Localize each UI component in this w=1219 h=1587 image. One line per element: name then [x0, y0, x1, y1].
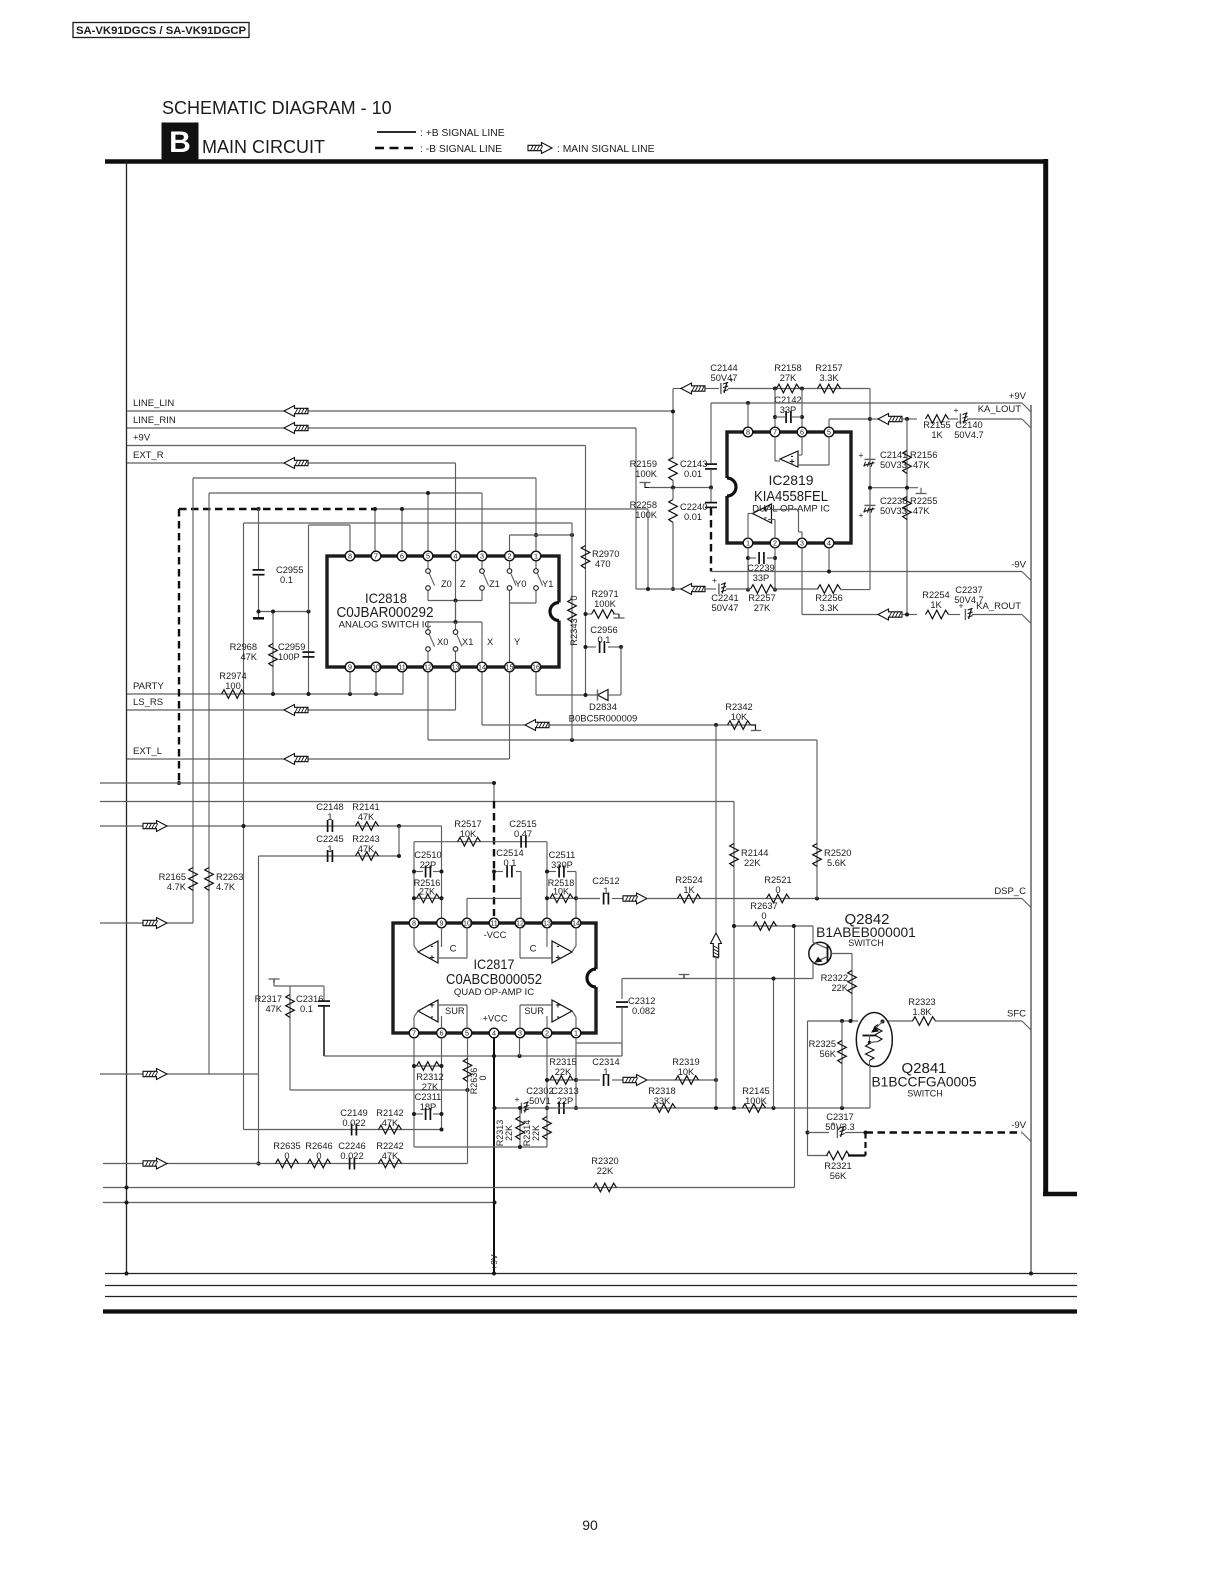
- svg-text:0.022: 0.022: [342, 1118, 365, 1128]
- svg-text:EXT_R: EXT_R: [133, 450, 164, 461]
- svg-text:R2974: R2974: [219, 671, 246, 681]
- svg-text:C2245: C2245: [316, 834, 343, 844]
- svg-text:C0ABCB000052: C0ABCB000052: [446, 972, 542, 988]
- svg-text:47K: 47K: [358, 812, 375, 822]
- svg-text:16: 16: [532, 663, 540, 672]
- svg-text:Y0: Y0: [515, 579, 526, 589]
- svg-text:D2834: D2834: [589, 702, 617, 713]
- svg-text:3: 3: [518, 1029, 522, 1038]
- svg-text:-: -: [764, 512, 767, 522]
- svg-text:SUR: SUR: [445, 1006, 465, 1016]
- svg-text:R2646: R2646: [305, 1141, 332, 1151]
- svg-text:C2238: C2238: [880, 496, 907, 506]
- svg-text:7: 7: [374, 552, 378, 561]
- svg-text:R2517: R2517: [454, 819, 481, 829]
- svg-text:EXT_L: EXT_L: [133, 746, 162, 757]
- svg-text:-: -: [557, 941, 560, 951]
- svg-text:C2515: C2515: [509, 819, 536, 829]
- svg-text:R2342: R2342: [725, 702, 752, 712]
- svg-text:47K: 47K: [265, 1004, 282, 1014]
- svg-text:R2322: R2322: [821, 973, 848, 983]
- svg-text:C2956: C2956: [590, 625, 617, 635]
- svg-text:50V47: 50V47: [711, 373, 738, 383]
- svg-text:1: 1: [746, 539, 750, 548]
- svg-text:33K: 33K: [654, 1096, 671, 1106]
- svg-text:8: 8: [412, 919, 416, 928]
- svg-text:+9V: +9V: [489, 1254, 499, 1270]
- svg-text:SWITCH: SWITCH: [907, 1089, 943, 1099]
- svg-text:+9V: +9V: [133, 433, 151, 444]
- svg-text:22K: 22K: [555, 1067, 572, 1077]
- svg-text:90: 90: [582, 1517, 598, 1533]
- svg-text:0.1: 0.1: [300, 1004, 313, 1014]
- svg-text:47K: 47K: [382, 1118, 399, 1128]
- svg-text:13: 13: [543, 919, 551, 928]
- svg-text:2: 2: [773, 539, 777, 548]
- svg-text:6: 6: [800, 428, 804, 437]
- svg-text:C2314: C2314: [592, 1057, 619, 1067]
- svg-text:KIA4558FEL: KIA4558FEL: [754, 488, 828, 505]
- svg-text:R2242: R2242: [376, 1141, 403, 1151]
- svg-text:27K: 27K: [419, 887, 435, 897]
- svg-text:R2258: R2258: [630, 500, 657, 510]
- svg-text:R2635: R2635: [273, 1141, 300, 1151]
- svg-text:100K: 100K: [635, 469, 658, 479]
- svg-text:11: 11: [398, 663, 405, 672]
- svg-text:R2158: R2158: [774, 363, 801, 373]
- svg-text:22P: 22P: [420, 860, 437, 870]
- svg-text:R2521: R2521: [764, 875, 791, 885]
- svg-text:C2511: C2511: [549, 850, 576, 860]
- svg-text:0: 0: [761, 911, 766, 921]
- svg-text:+: +: [712, 575, 717, 585]
- svg-text:4: 4: [454, 552, 458, 561]
- svg-text:10: 10: [463, 919, 471, 928]
- svg-text:C2241: C2241: [711, 593, 738, 603]
- svg-text:100K: 100K: [745, 1096, 768, 1106]
- svg-text:+VCC: +VCC: [482, 1014, 507, 1024]
- svg-text:LINE_LIN: LINE_LIN: [133, 398, 174, 409]
- svg-text:SCHEMATIC DIAGRAM - 10: SCHEMATIC DIAGRAM - 10: [162, 98, 392, 118]
- svg-text:C2955: C2955: [276, 565, 303, 575]
- svg-text:0.47: 0.47: [514, 829, 532, 839]
- svg-text:R2159: R2159: [630, 459, 657, 469]
- svg-text:Y: Y: [514, 637, 520, 647]
- svg-text:: -B SIGNAL LINE: : -B SIGNAL LINE: [420, 144, 502, 155]
- svg-text:IC2817: IC2817: [474, 956, 515, 972]
- svg-text:7: 7: [412, 1029, 416, 1038]
- svg-text:5: 5: [827, 428, 831, 437]
- svg-text:QUAD OP-AMP IC: QUAD OP-AMP IC: [454, 987, 534, 998]
- svg-text:56K: 56K: [819, 1049, 836, 1059]
- svg-text:1: 1: [603, 1067, 608, 1077]
- svg-text:100K: 100K: [594, 599, 617, 609]
- svg-text:+: +: [789, 456, 794, 466]
- svg-text:+: +: [429, 1000, 434, 1010]
- svg-text:0.1: 0.1: [598, 635, 611, 645]
- svg-text:22K: 22K: [744, 858, 761, 868]
- svg-text:R2325: R2325: [809, 1039, 836, 1049]
- svg-text:: MAIN SIGNAL LINE: : MAIN SIGNAL LINE: [557, 144, 655, 155]
- svg-text:C2246: C2246: [338, 1141, 365, 1151]
- svg-text:B: B: [169, 126, 191, 159]
- svg-text:R2317: R2317: [255, 994, 282, 1004]
- svg-text:12: 12: [516, 919, 524, 928]
- svg-text:14: 14: [478, 663, 486, 672]
- svg-text:18P: 18P: [420, 1102, 437, 1112]
- svg-text:4.7K: 4.7K: [216, 882, 236, 892]
- svg-text:12: 12: [424, 663, 432, 672]
- svg-text:C2144: C2144: [710, 363, 737, 373]
- svg-text:22K: 22K: [597, 1166, 614, 1176]
- svg-text:0.082: 0.082: [632, 1006, 655, 1016]
- svg-text:R2155: R2155: [923, 420, 950, 430]
- svg-text:1K: 1K: [930, 600, 942, 610]
- svg-text:SWITCH: SWITCH: [848, 938, 884, 948]
- svg-text:0: 0: [284, 1151, 289, 1161]
- svg-text:X: X: [487, 637, 493, 647]
- svg-text:R2970: R2970: [592, 549, 619, 559]
- svg-text:5: 5: [426, 552, 430, 561]
- svg-text:C2510: C2510: [414, 850, 441, 860]
- svg-text:22K: 22K: [504, 1125, 514, 1141]
- svg-text:+: +: [954, 405, 959, 415]
- svg-text:B1BCCFGA0005: B1BCCFGA0005: [871, 1075, 976, 1090]
- svg-text:6: 6: [400, 552, 404, 561]
- svg-text:50V1: 50V1: [529, 1096, 551, 1106]
- svg-text:R2319: R2319: [672, 1057, 699, 1067]
- svg-text:33P: 33P: [753, 573, 770, 583]
- svg-text:3: 3: [480, 552, 484, 561]
- svg-text:C2148: C2148: [316, 802, 343, 812]
- svg-text:3.3K: 3.3K: [819, 603, 839, 613]
- svg-text:R2320: R2320: [591, 1156, 618, 1166]
- svg-text:C2313: C2313: [551, 1086, 578, 1096]
- svg-text:X0: X0: [437, 637, 448, 647]
- svg-text:100P: 100P: [278, 652, 300, 662]
- svg-text:R2263: R2263: [216, 872, 243, 882]
- svg-text:47K: 47K: [913, 506, 930, 516]
- svg-text:X1: X1: [462, 637, 473, 647]
- svg-text:1: 1: [603, 886, 608, 896]
- svg-text:47K: 47K: [240, 652, 257, 662]
- svg-text:Z: Z: [460, 579, 466, 589]
- svg-text:+: +: [555, 952, 560, 962]
- svg-text:DSP_C: DSP_C: [994, 886, 1026, 897]
- svg-text:50V4.7: 50V4.7: [954, 595, 983, 605]
- svg-text:+9V: +9V: [1009, 391, 1027, 402]
- svg-text:B0BC5R000009: B0BC5R000009: [569, 714, 638, 725]
- svg-text:SFC: SFC: [1007, 1009, 1026, 1020]
- svg-text:R2968: R2968: [230, 642, 257, 652]
- svg-text:7: 7: [773, 428, 777, 437]
- svg-text:1: 1: [327, 812, 332, 822]
- svg-text:R2256: R2256: [815, 593, 842, 603]
- svg-text:R2145: R2145: [742, 1086, 769, 1096]
- svg-text:IC2818: IC2818: [365, 590, 407, 606]
- svg-text:50V47: 50V47: [712, 603, 739, 613]
- svg-text:C2240: C2240: [680, 502, 707, 512]
- svg-text:10K: 10K: [553, 887, 569, 897]
- svg-text:PARTY: PARTY: [133, 681, 164, 692]
- svg-text:8: 8: [746, 428, 750, 437]
- svg-text:R2144: R2144: [741, 848, 768, 858]
- svg-text:0: 0: [316, 1151, 321, 1161]
- svg-text:9: 9: [348, 663, 352, 672]
- svg-text:R2520: R2520: [824, 848, 851, 858]
- svg-text:R2524: R2524: [675, 875, 702, 885]
- svg-text:R2142: R2142: [376, 1108, 403, 1118]
- svg-text:3.3K: 3.3K: [819, 373, 839, 383]
- svg-text:10K: 10K: [460, 829, 477, 839]
- svg-text:ANALOG SWITCH IC: ANALOG SWITCH IC: [339, 620, 432, 631]
- svg-text:C2317: C2317: [826, 1112, 853, 1122]
- svg-text:C2143: C2143: [680, 459, 707, 469]
- svg-text:10K: 10K: [731, 712, 748, 722]
- svg-text:1K: 1K: [683, 885, 695, 895]
- svg-text:330P: 330P: [551, 860, 573, 870]
- svg-text:R2243: R2243: [352, 834, 379, 844]
- svg-text:8: 8: [348, 552, 352, 561]
- svg-text:47K: 47K: [358, 844, 375, 854]
- svg-text:10K: 10K: [678, 1067, 695, 1077]
- svg-text:LS_RS: LS_RS: [133, 697, 163, 708]
- svg-text:0.1: 0.1: [504, 858, 517, 868]
- svg-text:0.1: 0.1: [280, 575, 293, 585]
- svg-text:IC2819: IC2819: [769, 472, 814, 488]
- svg-text:R2156: R2156: [910, 450, 937, 460]
- svg-text:C2512: C2512: [592, 876, 619, 886]
- svg-text:R2315: R2315: [549, 1057, 576, 1067]
- svg-text:KA_LOUT: KA_LOUT: [978, 404, 1021, 415]
- svg-text:6: 6: [440, 1029, 444, 1038]
- svg-text:R2323: R2323: [908, 997, 935, 1007]
- svg-text:15: 15: [506, 663, 514, 672]
- svg-text:5: 5: [465, 1029, 469, 1038]
- svg-text:C2141: C2141: [880, 450, 907, 460]
- svg-text:C2237: C2237: [955, 585, 982, 595]
- svg-text:MAIN CIRCUIT: MAIN CIRCUIT: [202, 137, 325, 157]
- svg-text:5.6K: 5.6K: [827, 858, 847, 868]
- svg-text:R2254: R2254: [922, 590, 949, 600]
- svg-text:2: 2: [508, 552, 512, 561]
- svg-text:R2165: R2165: [159, 872, 186, 882]
- svg-text:C: C: [450, 944, 457, 955]
- svg-text:1: 1: [327, 844, 332, 854]
- svg-text:+: +: [859, 450, 864, 460]
- svg-text:C: C: [530, 944, 537, 955]
- svg-text:C2312: C2312: [628, 996, 655, 1006]
- svg-text:Z1: Z1: [489, 579, 500, 589]
- svg-text:33P: 33P: [780, 405, 797, 415]
- svg-text:100: 100: [225, 681, 241, 691]
- svg-text:3: 3: [800, 539, 804, 548]
- svg-text:R2318: R2318: [648, 1086, 675, 1096]
- svg-text:C2514: C2514: [496, 848, 523, 858]
- svg-text:22P: 22P: [557, 1096, 574, 1106]
- svg-text:C2140: C2140: [955, 420, 982, 430]
- svg-text:0.01: 0.01: [684, 469, 702, 479]
- svg-text:R2312: R2312: [416, 1072, 443, 1082]
- svg-text:-VCC: -VCC: [484, 930, 507, 940]
- svg-text:1K: 1K: [931, 430, 943, 440]
- svg-text:2: 2: [545, 1029, 549, 1038]
- svg-text:R2141: R2141: [352, 802, 379, 812]
- svg-text:56K: 56K: [830, 1171, 847, 1181]
- svg-text:13: 13: [452, 663, 460, 672]
- svg-text:9: 9: [440, 919, 444, 928]
- svg-text:SUR: SUR: [524, 1006, 544, 1016]
- svg-text:R2971: R2971: [591, 589, 618, 599]
- svg-text:+: +: [429, 952, 434, 962]
- svg-text:27K: 27K: [422, 1082, 439, 1092]
- svg-text:22K: 22K: [831, 983, 848, 993]
- svg-text:1: 1: [534, 552, 538, 561]
- svg-text:-9V: -9V: [1011, 1120, 1026, 1131]
- svg-text:470: 470: [595, 559, 611, 569]
- svg-text:R2343: R2343: [569, 618, 579, 645]
- svg-text:47K: 47K: [382, 1151, 399, 1161]
- svg-text:1.8K: 1.8K: [912, 1007, 932, 1017]
- svg-text:C2311: C2311: [415, 1092, 442, 1102]
- svg-text:50V4.7: 50V4.7: [954, 430, 983, 440]
- svg-text:R2157: R2157: [815, 363, 842, 373]
- svg-text:0: 0: [775, 885, 780, 895]
- svg-text:C2959: C2959: [278, 642, 305, 652]
- svg-text:22K: 22K: [531, 1125, 541, 1141]
- svg-text:R2257: R2257: [748, 593, 775, 603]
- svg-text:1: 1: [574, 1029, 578, 1038]
- svg-text:0: 0: [569, 595, 579, 600]
- svg-text:+: +: [859, 510, 864, 520]
- svg-text:47K: 47K: [913, 460, 930, 470]
- svg-text:R2255: R2255: [910, 496, 937, 506]
- svg-text:4: 4: [492, 1029, 496, 1038]
- svg-text:SA-VK91DGCS / SA-VK91DGCP: SA-VK91DGCS / SA-VK91DGCP: [76, 25, 247, 37]
- svg-text:LINE_RIN: LINE_RIN: [133, 415, 176, 426]
- svg-text:0.022: 0.022: [340, 1151, 363, 1161]
- svg-text:50V3.3: 50V3.3: [825, 1122, 854, 1132]
- svg-text:0: 0: [478, 1075, 488, 1080]
- svg-text:-9V: -9V: [1011, 560, 1026, 571]
- svg-text:+: +: [515, 1094, 520, 1104]
- svg-text:R2321: R2321: [824, 1161, 851, 1171]
- svg-text:0.01: 0.01: [684, 512, 702, 522]
- svg-text:10: 10: [372, 663, 380, 672]
- svg-text:C2302: C2302: [526, 1086, 553, 1096]
- svg-text:4: 4: [827, 539, 831, 548]
- svg-text:11: 11: [490, 919, 497, 928]
- svg-text:Y1: Y1: [542, 579, 553, 589]
- svg-text:R2637: R2637: [750, 901, 777, 911]
- svg-text:4.7K: 4.7K: [167, 882, 187, 892]
- svg-text:14: 14: [572, 919, 580, 928]
- svg-text:+: +: [555, 1000, 560, 1010]
- svg-text:C2316: C2316: [296, 994, 323, 1004]
- svg-text:: +B SIGNAL LINE: : +B SIGNAL LINE: [420, 128, 505, 139]
- svg-text:100K: 100K: [635, 510, 658, 520]
- svg-text:27K: 27K: [754, 603, 771, 613]
- svg-text:-: -: [431, 941, 434, 951]
- svg-text:C2149: C2149: [340, 1108, 367, 1118]
- svg-text:-: -: [431, 1011, 434, 1021]
- svg-text:-: -: [557, 1011, 560, 1021]
- svg-text:Z0: Z0: [441, 579, 452, 589]
- svg-text:27K: 27K: [780, 373, 797, 383]
